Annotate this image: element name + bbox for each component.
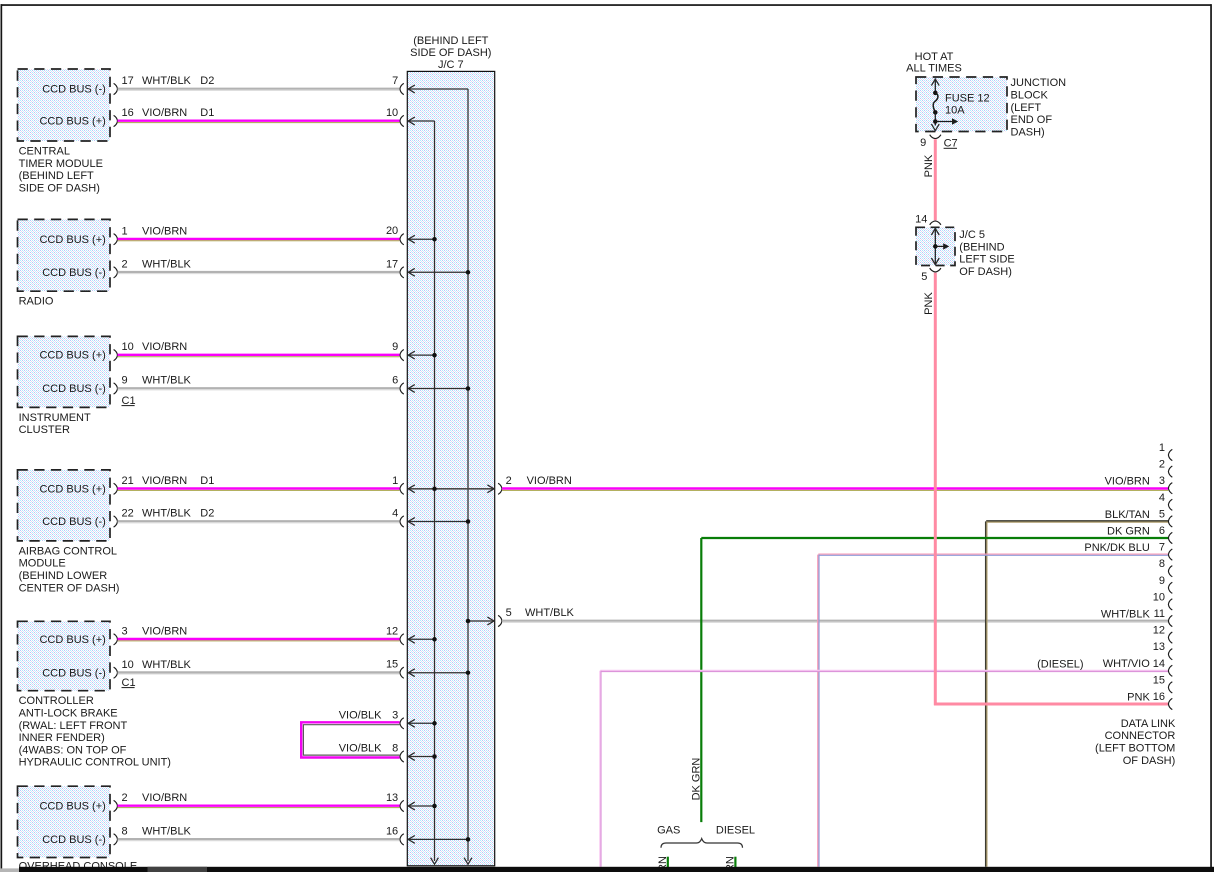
svg-text:13: 13: [386, 792, 398, 804]
svg-text:7: 7: [1159, 542, 1165, 554]
svg-text:10: 10: [122, 659, 134, 671]
svg-text:10: 10: [1153, 591, 1165, 603]
svg-text:WHT/BLK: WHT/BLK: [525, 607, 575, 619]
label HOT AT ALL TIMES: [906, 51, 962, 74]
J/C 7 pin 20 input: [386, 225, 437, 245]
label J/C 5 (BEHIND LEFT SIDE OF DASH): [959, 229, 1014, 278]
junction connector J/C 5: [915, 214, 955, 283]
svg-text:JUNCTION: JUNCTION: [1011, 77, 1067, 89]
svg-text:2: 2: [122, 258, 128, 270]
wire WHT/BLK row air2: [118, 521, 400, 523]
J/C 7 pin 10 input: [386, 107, 435, 127]
svg-text:CCD BUS (-): CCD BUS (-): [42, 834, 106, 846]
wire WHT/BLK row ohc2: [118, 839, 400, 841]
svg-text:WHT/BLK: WHT/BLK: [142, 508, 192, 520]
svg-text:AIRBAG CONTROL: AIRBAG CONTROL: [19, 545, 117, 557]
J/C 7 pin 13 input: [386, 792, 437, 812]
module: CENTRAL TIMER MODULE: [18, 69, 215, 194]
svg-text:WHT/BLK: WHT/BLK: [142, 75, 192, 87]
svg-text:(BEHIND LEFT: (BEHIND LEFT: [413, 35, 488, 47]
svg-text:PNK/DK BLU: PNK/DK BLU: [1084, 542, 1149, 554]
svg-text:(RWAL: LEFT FRONT: (RWAL: LEFT FRONT: [19, 720, 128, 732]
label DATA LINK CONNECTOR (LEFT BOTTOM OF DASH): [1095, 718, 1176, 767]
svg-text:17: 17: [386, 258, 398, 270]
wire WHT/BLK row ctm1: [118, 89, 400, 91]
svg-text:14: 14: [1153, 658, 1165, 670]
svg-text:VIO/BRN: VIO/BRN: [142, 792, 187, 804]
J/C 7 pin 4 input: [392, 508, 470, 528]
svg-text:WHT/BLK: WHT/BLK: [142, 375, 192, 387]
wire WHT/BLK row rad2: [118, 272, 400, 274]
data link connector pins: [1153, 442, 1173, 710]
svg-text:DK GRN: DK GRN: [691, 758, 703, 801]
svg-text:8: 8: [122, 826, 128, 838]
svg-text:CLUSTER: CLUSTER: [19, 424, 70, 436]
J/C 7 pin 1 pass-through (CCD+ to DLC): [392, 475, 494, 495]
svg-text:7: 7: [392, 75, 398, 87]
svg-text:ALL TIMES: ALL TIMES: [906, 62, 962, 74]
wire BLK/TAN to DLC pin5: [986, 521, 1168, 867]
svg-text:6: 6: [392, 375, 398, 387]
junction connector J/C 7 block: [407, 35, 494, 866]
svg-text:9: 9: [392, 341, 398, 353]
svg-text:D2: D2: [200, 75, 214, 87]
wire VIO/BRN row ctm2: [118, 121, 400, 123]
wire WHT/BLK J/C7 pin5 to DLC pin11: [502, 621, 1168, 623]
svg-text:DASH): DASH): [1011, 126, 1045, 138]
junction block (fuse 12): [916, 77, 1007, 132]
svg-text:WHT/BLK: WHT/BLK: [1101, 608, 1151, 620]
svg-text:5: 5: [1159, 508, 1165, 520]
wire PNK fuse to J/C5: [923, 139, 936, 220]
wire VIO/BRN J/C7 pin2 to DLC pin3: [502, 489, 1168, 491]
module: AIRBAG CONTROL MODULE: [18, 470, 215, 594]
wire VIO/BRN row air1: [118, 489, 400, 491]
label JUNCTION BLOCK (LEFT END OF DASH): [1011, 77, 1067, 138]
svg-text:CCD BUS (+): CCD BUS (+): [39, 801, 105, 813]
svg-text:WHT/BLK: WHT/BLK: [142, 826, 192, 838]
J/C 7 pin 8 input: [392, 743, 437, 763]
svg-text:3: 3: [1159, 475, 1165, 487]
svg-text:4: 4: [392, 508, 398, 520]
svg-text:4: 4: [1159, 492, 1165, 504]
svg-text:5: 5: [921, 271, 927, 283]
svg-text:VIO/BRN: VIO/BRN: [142, 107, 187, 119]
svg-text:15: 15: [386, 659, 398, 671]
svg-text:10A: 10A: [945, 104, 965, 116]
svg-text:SIDE OF DASH): SIDE OF DASH): [410, 47, 491, 59]
svg-text:CCD BUS (+): CCD BUS (+): [39, 116, 105, 128]
svg-text:1: 1: [122, 225, 128, 237]
J/C 7 pin 5 output (CCD- to DLC): [466, 607, 575, 627]
svg-text:CCD BUS (-): CCD BUS (-): [42, 383, 106, 395]
svg-text:VIO/BRN: VIO/BRN: [142, 341, 187, 353]
svg-text:DIESEL: DIESEL: [716, 825, 755, 837]
wire PNK J/C5 to DLC pin16: [923, 273, 1168, 706]
svg-text:(BEHIND LEFT: (BEHIND LEFT: [19, 170, 94, 182]
svg-text:CONNECTOR: CONNECTOR: [1105, 730, 1176, 742]
J/C 7 pin 2 output connector: [498, 475, 572, 495]
wire DK GRN to DLC pin6: [691, 538, 1168, 822]
svg-text:20: 20: [386, 225, 398, 237]
wire VIO/BLK loop J/C7 pin 3 to pin 8: [301, 709, 399, 757]
DLC wire labels: [1084, 476, 1150, 704]
svg-text:CCD BUS (+): CCD BUS (+): [39, 483, 105, 495]
svg-text:BLOCK: BLOCK: [1011, 90, 1049, 102]
J/C 7 internal bus line A (CCD+): [431, 121, 439, 864]
svg-text:J/C 7: J/C 7: [438, 59, 464, 71]
svg-text:1: 1: [1159, 442, 1165, 454]
wire VIO/BRN row ohc1: [118, 806, 400, 808]
svg-text:VIO/BRN: VIO/BRN: [142, 625, 187, 637]
svg-text:CCD BUS (-): CCD BUS (-): [42, 667, 106, 679]
svg-text:OF DASH): OF DASH): [1123, 755, 1176, 767]
wire DK GRN diesel branch: [724, 856, 736, 872]
svg-text:(DIESEL): (DIESEL): [1037, 658, 1083, 670]
branch arrow to other circuits: [935, 121, 952, 123]
svg-text:D1: D1: [200, 107, 214, 119]
module: OVERHEAD CONSOLE: [18, 786, 192, 872]
svg-text:2: 2: [122, 792, 128, 804]
bottom window bar: [0, 867, 1214, 872]
svg-text:CENTRAL: CENTRAL: [19, 146, 70, 158]
svg-text:CCD BUS (+): CCD BUS (+): [39, 634, 105, 646]
svg-text:VIO/BLK: VIO/BLK: [339, 743, 382, 755]
svg-text:RADIO: RADIO: [19, 296, 54, 308]
J/C 7 pin 6 input: [392, 375, 470, 395]
svg-text:PNK: PNK: [1127, 691, 1150, 703]
svg-text:SIDE OF DASH): SIDE OF DASH): [19, 182, 100, 194]
svg-text:GAS: GAS: [657, 825, 680, 837]
svg-text:CCD BUS (+): CCD BUS (+): [39, 234, 105, 246]
svg-text:D2: D2: [200, 508, 214, 520]
module: INSTRUMENT CLUSTER: [18, 336, 192, 436]
wire VIO/BRN row cab1: [118, 639, 400, 641]
J/C 7 pin 16 input: [386, 825, 470, 845]
svg-text:WHT/BLK: WHT/BLK: [142, 659, 192, 671]
svg-text:8: 8: [392, 743, 398, 755]
svg-text:6: 6: [1159, 525, 1165, 537]
svg-text:BLK/TAN: BLK/TAN: [1105, 509, 1150, 521]
J/C 7 pin 9 input: [392, 341, 437, 361]
wire WHT/VIO (DIESEL) to DLC pin14: [600, 658, 1168, 867]
svg-text:(BEHIND: (BEHIND: [959, 241, 1004, 253]
fuse F12 element: [933, 91, 938, 96]
module: RADIO: [18, 219, 192, 307]
svg-text:12: 12: [386, 625, 398, 637]
svg-text:CONTROLLER: CONTROLLER: [19, 695, 94, 707]
svg-text:WHT/BLK: WHT/BLK: [142, 258, 192, 270]
svg-text:9: 9: [122, 375, 128, 387]
svg-text:11: 11: [1154, 608, 1165, 620]
svg-text:INSTRUMENT: INSTRUMENT: [19, 412, 91, 424]
svg-text:TIMER MODULE: TIMER MODULE: [19, 158, 103, 170]
svg-text:VIO/BRN: VIO/BRN: [142, 475, 187, 487]
svg-text:FUSE 12: FUSE 12: [945, 93, 990, 105]
svg-text:15: 15: [1153, 674, 1165, 686]
svg-text:21: 21: [122, 475, 134, 487]
svg-text:14: 14: [915, 214, 927, 226]
wire VIO/BRN row rad1: [118, 239, 400, 241]
svg-text:PNK: PNK: [923, 292, 935, 315]
svg-text:2: 2: [506, 475, 512, 487]
wire WHT/BLK row clu2: [118, 388, 400, 390]
GAS / DIESEL branch brace: [657, 825, 755, 848]
svg-text:VIO/BRN: VIO/BRN: [1105, 476, 1150, 488]
module: CONTROLLER ANTI-LOCK BRAKE: [18, 621, 192, 768]
wire PNK/DK BLU to DLC pin7: [818, 554, 1168, 867]
svg-text:J/C 5: J/C 5: [959, 229, 985, 241]
svg-text:D1: D1: [200, 475, 214, 487]
svg-text:DK GRN: DK GRN: [1107, 525, 1150, 537]
J/C 7 pin 12 input: [386, 625, 437, 645]
svg-text:OF DASH): OF DASH): [959, 266, 1012, 278]
svg-text:9: 9: [1159, 575, 1165, 587]
svg-text:DATA LINK: DATA LINK: [1121, 718, 1176, 730]
svg-text:12: 12: [1153, 625, 1165, 637]
svg-text:LEFT SIDE: LEFT SIDE: [959, 254, 1014, 266]
svg-text:PNK: PNK: [923, 154, 935, 177]
svg-text:END OF: END OF: [1011, 114, 1053, 126]
wire DK GRN gas branch: [657, 856, 669, 872]
svg-text:WHT/VIO: WHT/VIO: [1103, 658, 1150, 670]
svg-text:VIO/BRN: VIO/BRN: [527, 475, 572, 487]
svg-text:1: 1: [392, 475, 398, 487]
svg-text:16: 16: [1153, 691, 1165, 703]
wire VIO/BRN row clu1: [118, 355, 400, 357]
svg-text:CCD BUS (-): CCD BUS (-): [42, 84, 106, 96]
svg-text:9: 9: [920, 137, 926, 149]
svg-text:2: 2: [1159, 459, 1165, 471]
wire WHT/BLK row cab2: [118, 672, 400, 674]
svg-text:MODULE: MODULE: [19, 558, 66, 570]
svg-text:(LEFT: (LEFT: [1011, 102, 1042, 114]
svg-text:CCD BUS (-): CCD BUS (-): [42, 516, 106, 528]
svg-text:(LEFT BOTTOM: (LEFT BOTTOM: [1095, 743, 1175, 755]
svg-text:10: 10: [122, 341, 134, 353]
svg-text:22: 22: [122, 508, 134, 520]
svg-text:CCD BUS (+): CCD BUS (+): [39, 350, 105, 362]
svg-text:5: 5: [506, 607, 512, 619]
svg-text:13: 13: [1153, 641, 1165, 653]
svg-text:3: 3: [122, 625, 128, 637]
svg-text:CCD BUS (-): CCD BUS (-): [42, 267, 106, 279]
svg-text:10: 10: [386, 107, 398, 119]
svg-text:INNER FENDER): INNER FENDER): [19, 732, 105, 744]
junction block pin 9 connector C7: [920, 135, 957, 150]
svg-text:VIO/BLK: VIO/BLK: [339, 709, 382, 721]
svg-text:17: 17: [122, 75, 134, 87]
J/C 7 pin 3 input: [392, 709, 437, 729]
svg-text:16: 16: [122, 107, 134, 119]
svg-text:CENTER OF DASH): CENTER OF DASH): [19, 582, 120, 594]
svg-text:VIO/BRN: VIO/BRN: [142, 225, 187, 237]
svg-text:(4WABS: ON TOP OF: (4WABS: ON TOP OF: [19, 744, 127, 756]
svg-text:ANTI-LOCK BRAKE: ANTI-LOCK BRAKE: [19, 708, 118, 720]
svg-text:3: 3: [392, 709, 398, 721]
J/C 7 internal bus line B (CCD-): [464, 89, 472, 864]
J/C 7 pin 17 input: [386, 258, 470, 278]
svg-text:16: 16: [386, 825, 398, 837]
J/C 7 pin 15 input: [386, 659, 470, 679]
svg-text:HYDRAULIC CONTROL UNIT): HYDRAULIC CONTROL UNIT): [19, 757, 171, 769]
svg-text:(BEHIND LOWER: (BEHIND LOWER: [19, 570, 108, 582]
J/C 7 pin 7 input: [392, 75, 468, 95]
svg-text:8: 8: [1159, 558, 1165, 570]
